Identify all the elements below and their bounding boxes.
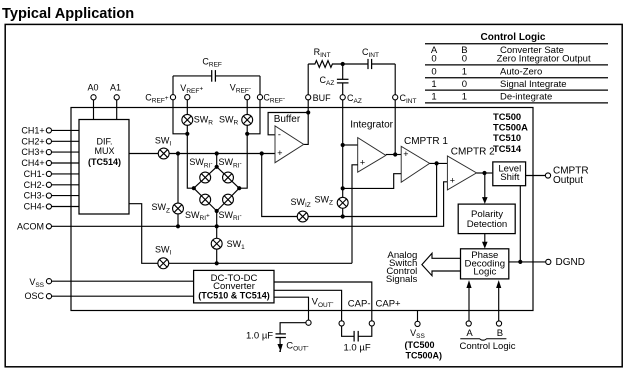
svg-text:1.0 µF: 1.0 µF — [246, 331, 273, 342]
svg-text:-: - — [278, 130, 281, 140]
node CMPTR1 output — [435, 161, 439, 165]
terminal V_REF- — [245, 95, 250, 100]
switch SW_RI top-left — [200, 172, 211, 183]
svg-text:Output: Output — [553, 175, 583, 186]
node bridge bottom — [215, 209, 219, 213]
op-amp integrator — [358, 138, 386, 173]
svg-text:BUF: BUF — [313, 93, 332, 103]
capacitor C_INT top — [343, 59, 396, 95]
svg-text:CMPTR 1: CMPTR 1 — [404, 136, 448, 147]
wire V_REF+ down to switch — [186, 100, 188, 115]
wire level shift bottom to DGND line — [519, 186, 521, 262]
svg-text:TC500A): TC500A) — [406, 351, 443, 361]
wire auto-zero branch upper — [177, 154, 179, 204]
svg-text:CH2+: CH2+ — [21, 136, 44, 146]
node main line x178 — [176, 151, 180, 155]
capacitor C_REF — [173, 70, 260, 94]
node below SW_R left — [185, 132, 189, 136]
svg-text:Auto-Zero: Auto-Zero — [500, 67, 542, 78]
svg-text:CAP+: CAP+ — [376, 298, 402, 309]
svg-text:A: A — [466, 328, 473, 339]
svg-text:OSC: OSC — [24, 291, 44, 301]
wire to integrator inverting input — [343, 144, 358, 146]
node R_INT C_INT C_AZ — [341, 62, 345, 66]
control logic truth table — [425, 32, 608, 103]
wire phase decoding to DGND — [509, 261, 546, 263]
switch SW_I top — [158, 148, 169, 159]
wire integrator plus input — [352, 165, 358, 263]
svg-text:0: 0 — [431, 67, 436, 78]
node ACOM line x216.7 — [215, 224, 219, 228]
polarity detection box — [458, 204, 515, 234]
wire CMPTR2 output to level shift — [477, 172, 493, 174]
wire integrator output to CMPTR1 — [386, 154, 401, 156]
svg-text:1.0 µF: 1.0 µF — [344, 342, 371, 353]
svg-text:B: B — [497, 328, 503, 339]
svg-text:Buffer: Buffer — [274, 114, 301, 125]
svg-text:+: + — [450, 176, 455, 186]
wire SW_1 to junction — [216, 249, 218, 263]
svg-text:CAP-: CAP- — [348, 298, 371, 309]
node DGND line — [518, 260, 522, 264]
terminal ACOM — [46, 224, 51, 229]
svg-text:TC500A: TC500A — [493, 122, 528, 133]
wire SW_I bottom to integrator plus branch — [169, 262, 352, 264]
terminal OSC — [46, 294, 51, 299]
svg-text:CH1-: CH1- — [24, 169, 45, 179]
svg-text:CMPTR 2: CMPTR 2 — [451, 147, 495, 158]
wires CH inputs to mux — [52, 130, 79, 206]
input terminals CH1+..CH4- — [46, 128, 51, 209]
wire DC-DC output to CAP+ — [274, 282, 372, 321]
terminal V_SS left — [46, 279, 51, 284]
svg-text:Control Logic: Control Logic — [460, 341, 516, 352]
svg-text:0: 0 — [462, 54, 467, 65]
svg-text:(TC510 & TC514): (TC510 & TC514) — [198, 290, 270, 300]
svg-text:1: 1 — [462, 67, 467, 78]
wire ACOM line to CMPTR2 + input — [52, 182, 448, 227]
op-amp CMPTR 2 — [447, 156, 476, 190]
wire V_SS bottom stub — [417, 311, 419, 322]
wire B to phase decoding with arrow — [498, 287, 500, 321]
wire SW_R left to bridge left node — [187, 125, 194, 188]
switch SW_I bottom — [158, 258, 169, 269]
terminal C_AZ — [340, 95, 345, 100]
svg-text:Zero Integrator Output: Zero Integrator Output — [497, 54, 591, 65]
wire V_SS to DC-DC converter — [52, 280, 194, 282]
svg-text:(TC514): (TC514) — [88, 157, 121, 167]
wire polarity to phase decoding with arrow — [484, 234, 486, 244]
wire SW_R right to bridge right node — [239, 125, 247, 188]
capacitor 1.0uF between CAP- CAP+ — [342, 326, 372, 341]
wire V_REF- down to switch — [246, 100, 248, 115]
open arrow analog switch control signals — [422, 253, 461, 275]
wire bridge bottom to ACOM line and SW_1 — [216, 211, 218, 238]
svg-text:+: + — [277, 148, 282, 158]
phase decoding logic box — [461, 249, 509, 279]
svg-text:CH3+: CH3+ — [21, 147, 44, 157]
terminal A0 — [91, 95, 96, 100]
svg-text:TC510: TC510 — [493, 132, 521, 143]
wire C_AZ down to integrator input — [342, 100, 344, 188]
switch SW_R left — [182, 114, 193, 125]
terminal DGND — [546, 259, 551, 264]
svg-text:Typical Application: Typical Application — [2, 6, 134, 22]
svg-text:Control Logic: Control Logic — [481, 32, 546, 43]
node integrator output C_INT — [393, 152, 397, 156]
terminal C_REF- — [257, 95, 262, 100]
terminal V_REF+ — [185, 95, 190, 100]
wire level shift to CMPTR output — [526, 175, 546, 177]
terminal BUF — [306, 95, 311, 100]
reference bridge diamond wires — [194, 167, 239, 211]
label analog switch control signals — [386, 250, 418, 285]
wire BUF to R_INT — [307, 64, 309, 95]
terminal CMPTR output — [545, 173, 550, 178]
wire CMPTR1 output to CMPTR2 — [430, 162, 448, 164]
wire A1 to mux — [116, 100, 118, 119]
node buffer feedback — [306, 110, 310, 114]
svg-text:CH2-: CH2- — [24, 180, 45, 190]
labels CH1+..CH4- — [21, 126, 44, 212]
svg-text:0: 0 — [462, 79, 467, 90]
switch SW_RI bottom-left — [200, 194, 211, 205]
wire SW_IZ branch from buffer input line — [262, 154, 298, 217]
svg-text:Signal Integrate: Signal Integrate — [500, 79, 567, 90]
svg-text:0: 0 — [431, 54, 436, 65]
svg-text:TC500: TC500 — [493, 111, 521, 122]
node CMPTR2 output — [482, 171, 486, 175]
level shift box — [493, 162, 526, 186]
svg-text:MUX: MUX — [95, 146, 115, 156]
wire C_REF- stub down — [247, 100, 260, 134]
svg-text:Detection: Detection — [467, 219, 508, 230]
svg-text:Signals: Signals — [386, 274, 418, 285]
wire C_REF+ stub down — [173, 100, 187, 134]
node SW_IZ line junction — [341, 214, 345, 218]
capacitor C_OUT 1.0uF — [276, 334, 286, 344]
node C_AZ SW_Z junction — [341, 186, 345, 190]
wire mux lower output to SW_I bottom — [129, 204, 158, 264]
capacitor C_AZ — [337, 64, 349, 95]
node main line bridge top — [215, 151, 219, 155]
part numbers TC500 TC500A TC510 TC514 — [493, 111, 528, 154]
svg-text:+: + — [360, 157, 365, 167]
resistor R_INT — [308, 61, 343, 68]
wire V_OUT- to C_OUT cap — [280, 323, 306, 334]
terminal A bottom — [466, 321, 471, 326]
terminal A1 — [114, 95, 119, 100]
svg-text:CH4+: CH4+ — [21, 158, 44, 168]
node below SW_R right — [245, 132, 249, 136]
wire bridge top stub — [216, 154, 218, 167]
svg-text:ACOM: ACOM — [17, 222, 44, 232]
switch SW_RI top-right — [223, 172, 234, 183]
op-amp CMPTR 1 — [401, 146, 429, 182]
dc-to-dc converter box — [194, 270, 274, 303]
svg-text:Shift: Shift — [500, 172, 520, 183]
wire DC-DC output to V_OUT- — [274, 297, 309, 320]
terminal C_INT — [393, 95, 398, 100]
svg-text:DGND: DGND — [556, 257, 585, 268]
wire SW_Z right lower stub — [342, 188, 344, 216]
svg-text:1: 1 — [462, 92, 467, 103]
terminal CAP- — [339, 321, 344, 326]
svg-text:1: 1 — [431, 92, 436, 103]
node integrator inverting input — [341, 143, 345, 147]
svg-text:A1: A1 — [110, 82, 121, 92]
wire A0 to mux — [93, 100, 95, 119]
switch SW_IZ — [297, 211, 308, 222]
wire OSC to DC-DC converter — [52, 295, 194, 297]
label (TC500 TC500A) — [404, 340, 442, 360]
switch SW_Z right — [337, 197, 348, 208]
arrow C_OUT down — [277, 344, 282, 352]
svg-text:1: 1 — [431, 79, 436, 90]
wire A to phase decoding with arrow — [468, 287, 470, 321]
svg-text:CH4-: CH4- — [24, 202, 45, 212]
buffer U2 feedback loop — [268, 113, 308, 135]
node bridge left — [192, 186, 196, 190]
node SW_1 SW_I junction — [215, 261, 219, 265]
node ACOM line x178 — [176, 224, 180, 228]
svg-text:CH3-: CH3- — [24, 191, 45, 201]
wire CMPTR2 output down to polarity detection with arrow — [484, 173, 486, 199]
svg-text:A0: A0 — [88, 82, 99, 92]
dif mux U1 (TC514) — [79, 120, 129, 215]
wire SW_Z left to ACOM line — [177, 214, 179, 227]
node bridge top — [215, 165, 219, 169]
switch SW_RI bottom-right — [223, 194, 234, 205]
op-amp buffer — [275, 126, 304, 163]
svg-text:TC514: TC514 — [493, 143, 522, 154]
terminal C_REF+ — [170, 95, 175, 100]
terminal B bottom — [496, 321, 501, 326]
switch SW_1 — [211, 238, 222, 249]
wire mux output main line to buffer — [129, 153, 158, 155]
wire CMPTR1 lower input — [343, 174, 402, 189]
terminal V_OUT- — [306, 320, 311, 325]
underline A B brace — [460, 339, 506, 341]
switch SW_R right — [242, 114, 253, 125]
svg-text:De-integrate: De-integrate — [500, 92, 552, 103]
terminal V_SS bottom — [415, 321, 420, 326]
IC boundary rectangle — [71, 108, 533, 311]
wire C_INT to integrator output — [394, 100, 396, 155]
node bridge right — [237, 186, 241, 190]
svg-text:Logic: Logic — [473, 267, 496, 278]
svg-text:Integrator: Integrator — [350, 120, 393, 131]
svg-text:CH1+: CH1+ — [21, 126, 44, 136]
wire SW_IZ to junction and to CMPTR1 output — [308, 163, 437, 216]
terminal CAP+ — [369, 321, 374, 326]
switch SW_Z left — [173, 203, 184, 214]
svg-text:DIF.: DIF. — [96, 136, 112, 146]
wire DC-DC output to CAP- — [274, 290, 342, 320]
node main line buffer input — [260, 151, 264, 155]
svg-text:(TC500: (TC500 — [404, 340, 434, 350]
svg-text:+: + — [403, 149, 408, 159]
wire buffer output up — [304, 100, 309, 144]
